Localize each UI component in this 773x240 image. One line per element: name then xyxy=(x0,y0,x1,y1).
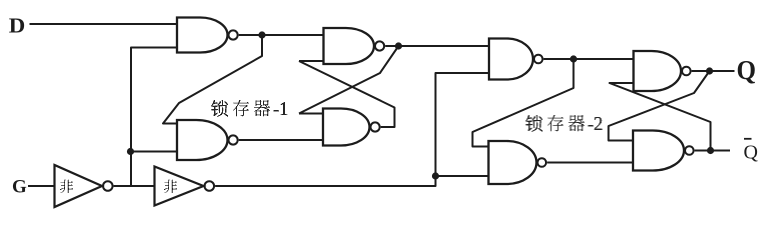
NAND gate U6 xyxy=(489,141,547,184)
wire U9 output to U10 input xyxy=(114,185,155,187)
wire node G2 to U6 lower input xyxy=(436,175,489,177)
inverter U10 xyxy=(155,167,215,206)
NAND gate U2 xyxy=(177,120,238,160)
node G-bar tap junction xyxy=(127,148,134,155)
wire U2 output to U4 lower input xyxy=(239,139,323,141)
wire U7 output to node Q xyxy=(692,70,710,72)
node Q1 junction xyxy=(395,42,402,49)
wire U4 output feedback to U3 lower input xyxy=(299,61,395,127)
svg-text:Q: Q xyxy=(744,142,759,164)
node Qbar junction xyxy=(707,147,714,154)
label latch-2 text xyxy=(526,115,603,132)
wire U1 output to node S xyxy=(239,34,262,36)
svg-text:D: D xyxy=(9,14,26,38)
inverter U9 xyxy=(55,165,113,207)
wire U8 output to node Qbar xyxy=(695,150,711,152)
label NOT text in U10 xyxy=(164,179,177,193)
label NOT text in U9 xyxy=(60,179,73,193)
label latch-1 text xyxy=(211,100,288,117)
output label Qbar overbar xyxy=(744,138,752,140)
wire node Q to U8 upper input xyxy=(609,71,710,141)
wire node Q1 to U5 input xyxy=(399,45,490,47)
svg-text:Q: Q xyxy=(737,55,757,85)
NAND gate U7 xyxy=(634,51,691,91)
NAND gate U4 xyxy=(323,109,380,146)
wire node Q1 to U4 upper input xyxy=(299,46,399,114)
NAND gate U8 xyxy=(633,131,694,171)
wire G to inverter U9 xyxy=(28,185,55,187)
node S2 junction xyxy=(570,55,577,62)
wire U3 lower input stub xyxy=(299,60,324,62)
wire node Qbar feedback to U7 lower input xyxy=(610,83,711,151)
svg-text:G: G xyxy=(12,177,27,198)
NAND gate U3 xyxy=(324,28,385,64)
wire U4 upper input stub xyxy=(299,113,323,115)
wire U6 output to U8 lower input xyxy=(547,162,633,164)
NAND gate U5 xyxy=(489,39,543,80)
wire D to gate U1 xyxy=(30,23,178,25)
wire node Qbar to output Qbar xyxy=(711,150,731,152)
wire node S to U3 input xyxy=(262,34,324,36)
wire node S2 to U7 input xyxy=(574,58,634,60)
wire U5 output to node S2 xyxy=(544,58,574,60)
node Q junction xyxy=(706,67,713,74)
wire G-bar riser to U1 lower input xyxy=(131,48,177,187)
wire G-bar tap to U2 lower input xyxy=(131,151,177,153)
wire node Q to output Q xyxy=(710,70,735,72)
wire U10 output to clock node xyxy=(215,73,489,186)
wire node S2 to U6 upper input xyxy=(473,59,574,147)
wire U3 output to node Q1 xyxy=(385,45,398,47)
node S junction xyxy=(258,31,265,38)
NAND gate U1 xyxy=(177,18,238,53)
wire node S to U2 upper input xyxy=(163,35,262,124)
node G2 junction xyxy=(432,172,439,179)
